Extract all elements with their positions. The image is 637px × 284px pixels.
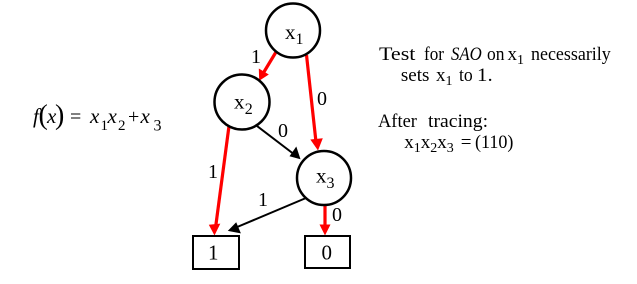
edge x1 to x2 (red, label 1) — [259, 52, 276, 81]
svg-text:0: 0 — [317, 88, 327, 110]
svg-text:x: x — [107, 104, 118, 128]
node x3 (circle) — [297, 151, 351, 205]
svg-text:1: 1 — [251, 46, 261, 68]
node x2 (circle) — [215, 75, 270, 130]
terminal box 0 — [305, 236, 350, 268]
text line: After tracing: — [378, 111, 417, 133]
svg-text:): ) — [55, 100, 64, 131]
svg-text:2: 2 — [118, 118, 126, 134]
svg-text:1: 1 — [296, 31, 304, 48]
svg-text:x: x — [285, 20, 296, 44]
svg-text:+: + — [128, 106, 139, 128]
svg-text:0: 0 — [332, 204, 342, 226]
formula f(x) = x1x2 + x3 — [33, 100, 162, 135]
node x1 (circle) — [266, 4, 320, 58]
svg-text:0: 0 — [278, 120, 288, 142]
edge x2 to terminal 1 (red, label 1) — [209, 126, 229, 236]
svg-text:x: x — [89, 104, 100, 128]
edge x3 to terminal 1 (black, label 1) — [228, 198, 306, 233]
svg-text:=: = — [70, 106, 81, 128]
text line: sets x1 to 1. — [401, 65, 430, 87]
terminal box 1 — [193, 236, 239, 269]
svg-text:x: x — [316, 164, 327, 188]
edge x2 to x3 (black, label 0) — [257, 126, 301, 159]
svg-text:1: 1 — [208, 161, 218, 183]
svg-text:3: 3 — [154, 118, 162, 135]
svg-text:0: 0 — [322, 241, 333, 265]
text line: x1x2x3 = (110) — [404, 132, 454, 154]
svg-text:3: 3 — [327, 175, 335, 192]
svg-text:2: 2 — [245, 101, 253, 118]
edge x3 to terminal 0 (red, label 0) — [320, 205, 331, 236]
text line: Test for SAO on x1 necessarily — [379, 44, 415, 66]
svg-text:x: x — [140, 104, 151, 128]
svg-text:1: 1 — [208, 241, 219, 265]
svg-text:1: 1 — [258, 189, 268, 211]
edge x1 to x3 (red, label 0) — [307, 55, 323, 151]
svg-text:x: x — [234, 90, 245, 114]
